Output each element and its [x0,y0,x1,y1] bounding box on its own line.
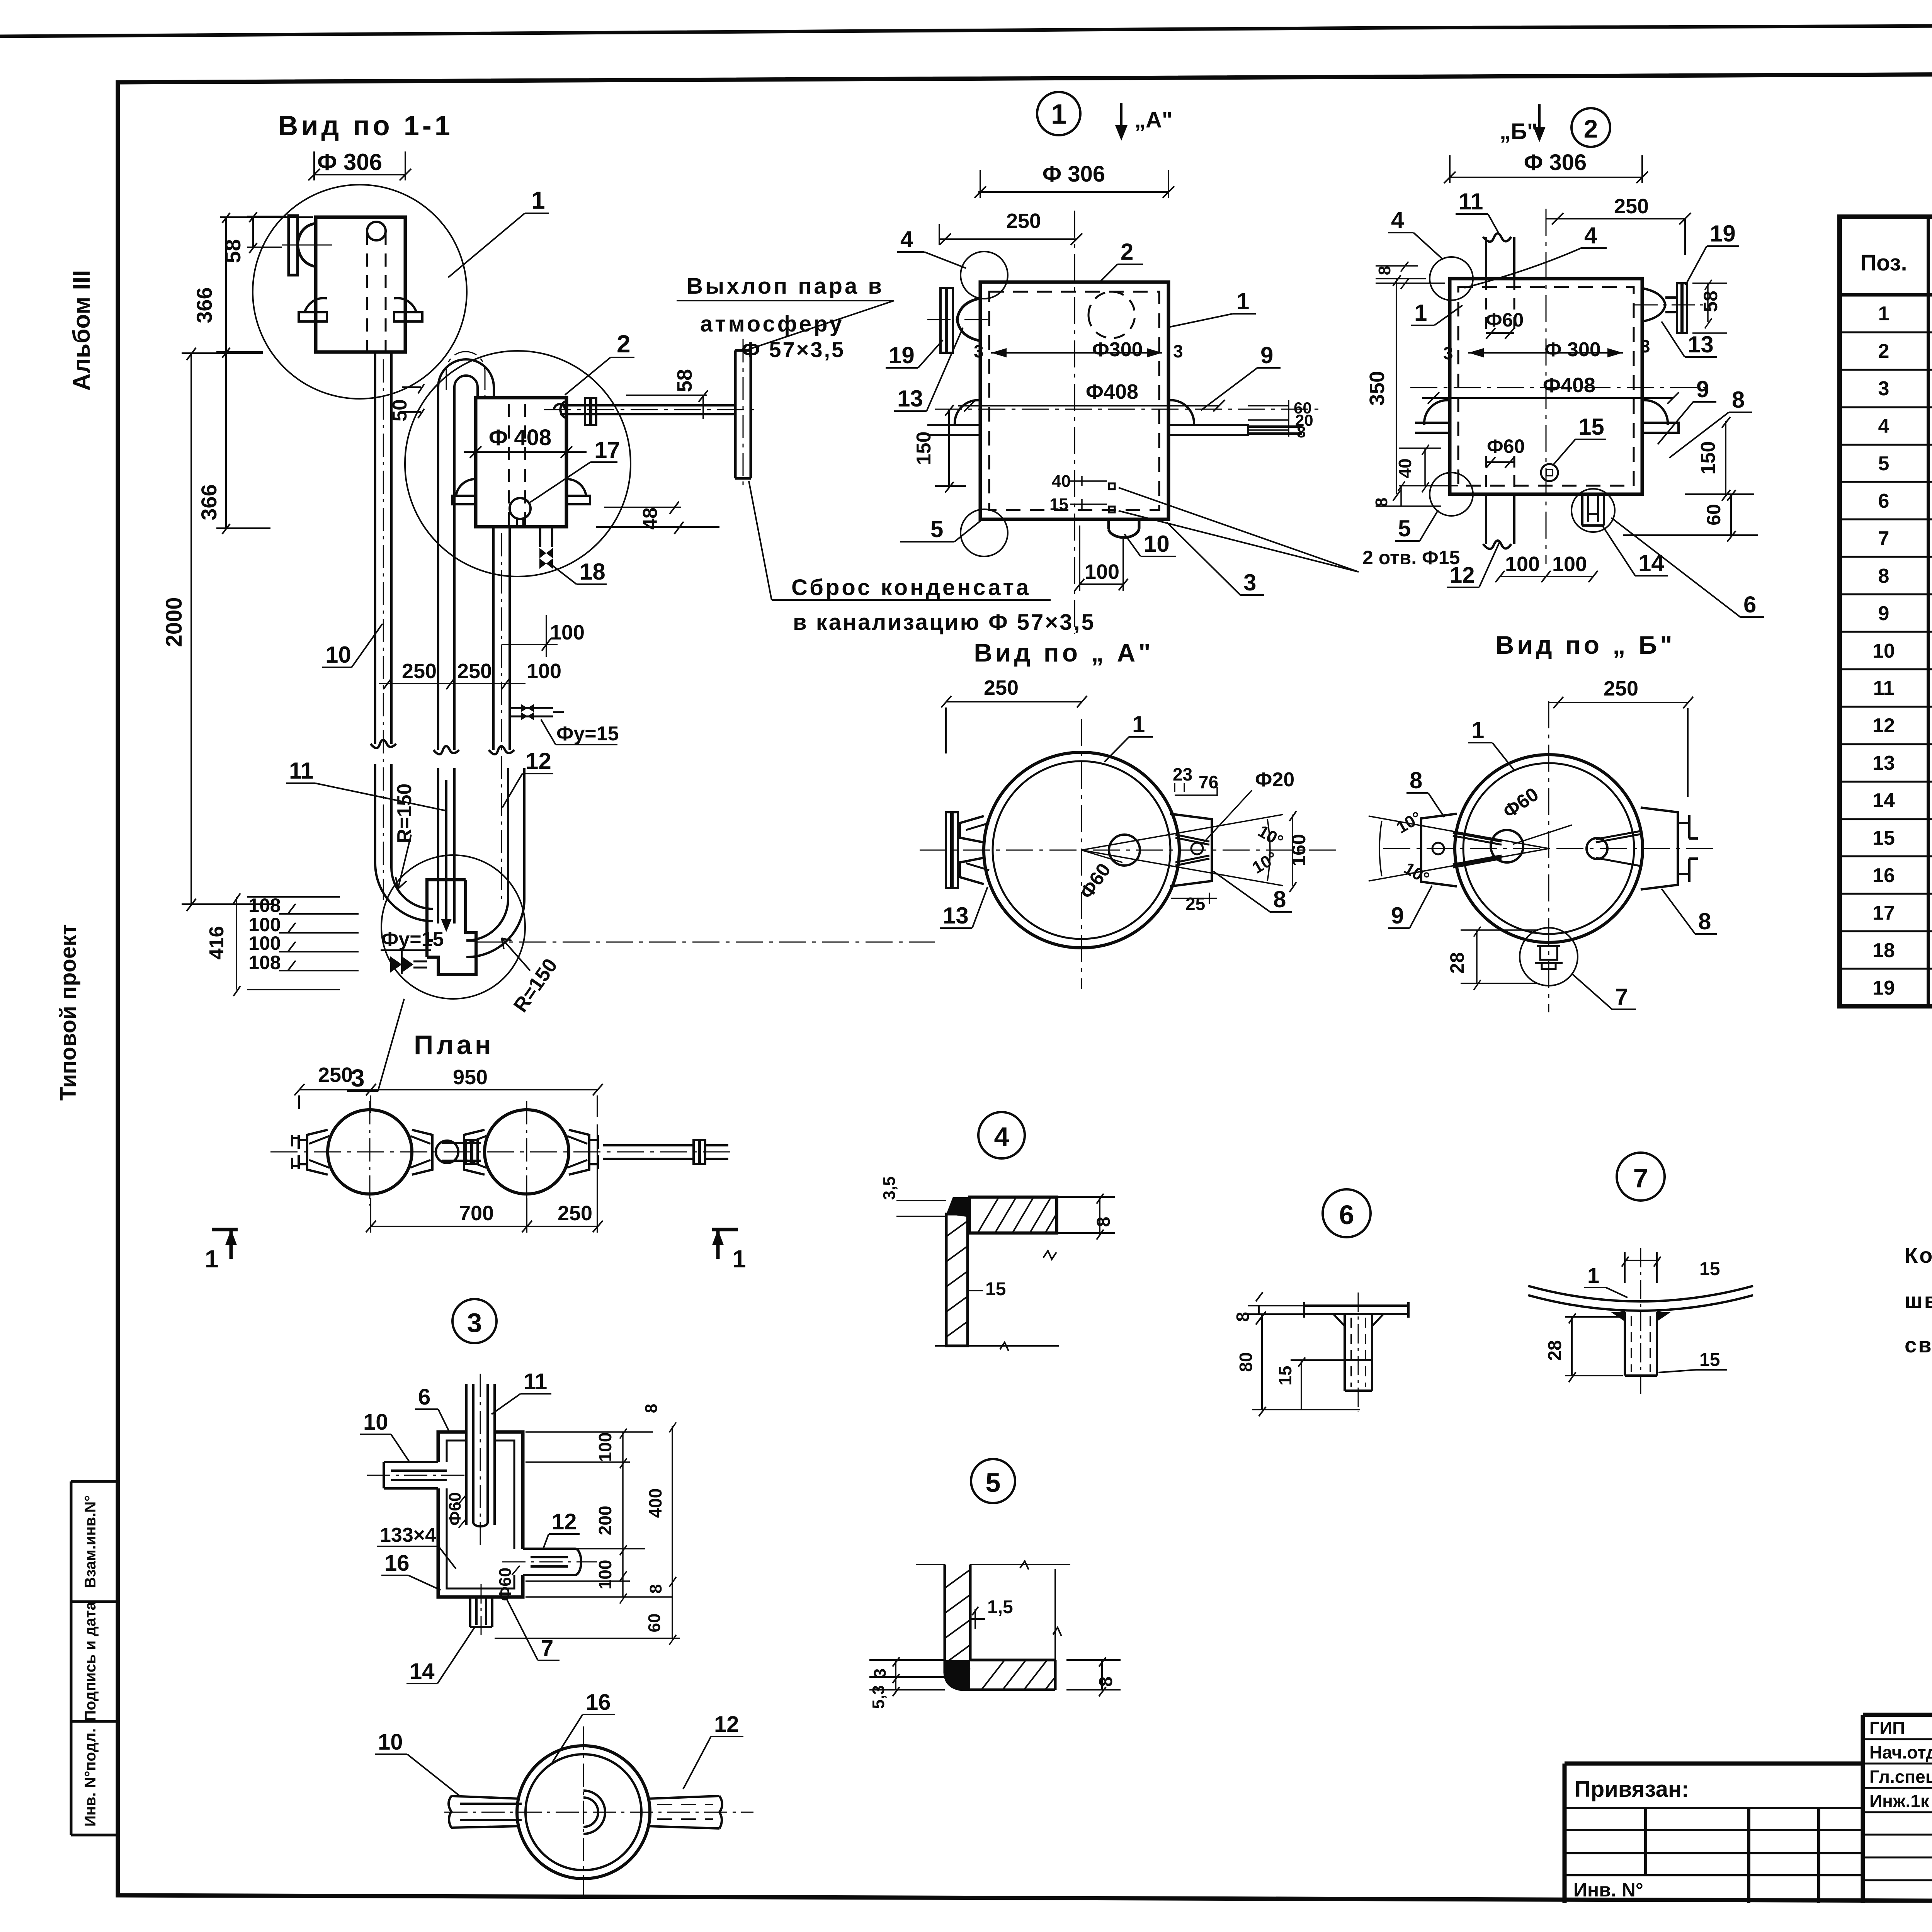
svg-text:60: 60 [1703,504,1725,526]
svg-text:5: 5 [1878,452,1889,475]
lower pipe 11 resumed [438,768,454,925]
round view left pipe [449,1796,522,1828]
svg-text:15: 15 [1699,1350,1720,1370]
svg-text:17: 17 [1872,902,1895,924]
drain valve right [510,708,564,716]
svg-text:18: 18 [580,559,605,585]
svg-text:1: 1 [1132,711,1145,737]
svg-text:Инж.1к: Инж.1к [1869,1791,1930,1811]
svg-text:10: 10 [363,1410,388,1435]
svg-text:12: 12 [552,1509,577,1534]
svg-text:100: 100 [1505,553,1540,576]
svg-text:4: 4 [1391,207,1404,233]
svg-text:План: План [414,1030,494,1060]
V2 centerlines [1410,209,1712,564]
svg-text:швом . Толщину шва принимат: швом . Толщину шва принимать равной мень… [1905,1288,1932,1313]
A main circle [984,752,1179,948]
svg-text:7: 7 [1615,984,1628,1010]
node3 bottom stub 14 [470,1597,492,1627]
node3 right pipe 12 [523,1549,581,1575]
node7 curved shell [1528,1286,1753,1311]
svg-text:80: 80 [1236,1352,1256,1372]
svg-text:3: 3 [1443,343,1453,363]
svg-text:28: 28 [1545,1340,1565,1361]
svg-text:366: 366 [192,287,216,323]
V2 tank body [1450,279,1642,494]
svg-text:5: 5 [930,516,943,542]
valve 18 symbol [539,548,553,569]
svg-text:3: 3 [1173,341,1183,361]
V2 inner dashed shell [1458,287,1634,486]
svg-text:Ф20: Ф20 [1255,769,1294,791]
view A arrow [1120,103,1122,136]
bottom-left sub table [1565,1808,1863,1875]
svg-text:8: 8 [1094,1217,1114,1227]
svg-text:150: 150 [1697,441,1719,475]
B small hole right [1587,838,1607,859]
V1 left nozzle [940,288,953,353]
svg-text:5: 5 [986,1468,1001,1498]
svg-text:1: 1 [1051,99,1066,130]
svg-text:12: 12 [1872,714,1895,737]
svg-text:11: 11 [524,1369,547,1394]
svg-text:250: 250 [558,1202,592,1225]
A 10 degree rays [1082,815,1283,886]
node3 tank body [438,1432,523,1597]
svg-text:950: 950 [453,1066,488,1089]
svg-text:Ф 306: Ф 306 [1524,150,1587,175]
svg-text:15: 15 [1699,1259,1720,1279]
svg-text:15: 15 [1049,495,1068,514]
plan section mark right [712,1230,738,1259]
svg-text:4: 4 [1878,415,1889,437]
plan right vessel right lug [569,1130,598,1175]
svg-text:76: 76 [1199,772,1218,792]
svg-text:11: 11 [1873,677,1895,699]
tank2 left support [452,479,476,504]
svg-text:250: 250 [1006,209,1041,233]
svg-text:19: 19 [889,342,915,368]
svg-text:5: 5 [1398,515,1411,541]
seal pot tank3 [427,880,476,975]
svg-text:14: 14 [1638,550,1664,576]
section marker circle 2 [1571,108,1610,147]
svg-text:58: 58 [1700,291,1721,312]
svg-text:23: 23 [1173,764,1192,784]
B right lug [1641,808,1698,889]
svg-text:Сброс конденсата: Сброс конденсата [791,575,1031,600]
page top scan line [0,23,1932,36]
V1 detail circle top left [961,252,1008,299]
svg-text:14: 14 [410,1659,435,1684]
svg-text:R=150: R=150 [393,784,416,844]
plan right vessel [485,1110,569,1194]
V2 right nozzle [1642,283,1687,333]
V2 bottom pipe 12 [1483,494,1514,549]
svg-text:Вид по „ А": Вид по „ А" [974,638,1153,667]
V2 left support [1415,400,1450,433]
node4 vertical plate hatched [946,1214,968,1346]
pipe 12 run [489,527,514,754]
svg-text:Фу=15: Фу=15 [381,928,444,951]
svg-text:6: 6 [1339,1200,1354,1230]
svg-text:3,5: 3,5 [880,1176,899,1200]
svg-text:6: 6 [418,1384,430,1410]
svg-text:7: 7 [1878,527,1889,550]
svg-text:7: 7 [541,1636,553,1661]
svg-text:700: 700 [459,1202,494,1225]
svg-text:6: 6 [1878,490,1889,512]
svg-text:Ф 306: Ф 306 [317,149,382,175]
svg-text:13: 13 [897,386,923,412]
plan left vessel [328,1110,412,1194]
svg-text:1: 1 [1587,1263,1599,1287]
svg-text:16: 16 [1872,864,1895,887]
V2 right support [1642,400,1679,433]
tank2 drain cock [510,498,531,519]
svg-text:250: 250 [1604,677,1638,700]
svg-text:9: 9 [1878,602,1889,625]
svg-text:16: 16 [384,1551,410,1576]
round view right pipe [648,1796,722,1828]
svg-text:40: 40 [1395,458,1415,478]
svg-text:8: 8 [1698,908,1711,934]
svg-text:6: 6 [1743,592,1756,617]
node4 horizontal plate hatched [969,1197,1057,1233]
left margin cells [71,1481,118,1835]
svg-text:108: 108 [248,895,281,916]
tank2 right nozzle and pipe [554,401,735,418]
svg-text:3: 3 [1243,570,1256,595]
svg-text:2: 2 [1584,114,1598,143]
node5 horizontal plate [962,1660,1055,1690]
svg-text:100: 100 [1552,553,1587,576]
B main circle [1455,755,1643,942]
parts table grid [1840,217,1932,1006]
svg-text:150: 150 [913,432,935,465]
svg-text:100: 100 [1085,560,1119,583]
B centerlines [1383,701,1716,1012]
svg-text:4: 4 [900,226,913,252]
svg-text:3: 3 [1878,378,1889,400]
V2 coupling 15 [1541,464,1558,481]
svg-text:11: 11 [1459,189,1483,214]
A left lug assembly [946,812,984,888]
svg-text:Поз.: Поз. [1860,250,1907,276]
plan left vessel right lug [412,1130,432,1175]
svg-text:8: 8 [646,1584,665,1594]
svg-text:19: 19 [1710,221,1736,247]
svg-text:1: 1 [1414,300,1427,326]
svg-text:8: 8 [1096,1677,1116,1687]
svg-text:в канализацию Ф 57×3,5: в канализацию Ф 57×3,5 [793,610,1095,635]
svg-text:9: 9 [1260,342,1273,368]
svg-text:250: 250 [984,676,1019,699]
tank1 left support [299,298,327,321]
plan centerline [270,1151,734,1153]
svg-text:8: 8 [642,1404,661,1413]
round view center boss [583,1791,605,1834]
svg-text:100: 100 [248,932,281,954]
V2 stub 14 [1582,494,1604,526]
node3 top pipe 11 [466,1384,495,1526]
A right lug assembly [1170,814,1212,886]
svg-text:108: 108 [248,952,281,973]
svg-text:Ф408: Ф408 [1543,374,1595,397]
svg-text:10: 10 [1872,640,1895,662]
svg-text:12: 12 [1450,563,1475,588]
svg-text:Нач.отд.: Нач.отд. [1869,1742,1932,1762]
V1 left support [927,400,980,435]
tank3 left drain stub and valve [413,961,427,968]
svg-text:Ф408: Ф408 [1086,380,1138,403]
svg-text:50: 50 [389,399,411,422]
svg-text:133×4: 133×4 [380,1524,436,1546]
node6 gussets [1333,1314,1383,1326]
svg-text:11: 11 [289,758,313,784]
svg-text:Типовой проект: Типовой проект [56,924,81,1100]
B hole Ф60 [1491,830,1523,862]
plan left vessel left lug [292,1130,328,1175]
svg-text:2: 2 [1878,340,1889,362]
A centerlines [920,719,1337,989]
svg-text:14: 14 [1872,789,1895,812]
svg-text:2 отв. Ф15: 2 отв. Ф15 [1362,547,1460,568]
svg-text:250: 250 [1614,195,1649,218]
svg-text:15: 15 [1578,414,1604,440]
tank1 inner pipe dashed [367,232,386,352]
svg-text:10: 10 [1144,531,1170,557]
plan outgoing pipe [603,1140,728,1164]
svg-text:5,3: 5,3 [869,1685,888,1709]
svg-text:15: 15 [1872,827,1895,849]
svg-text:58: 58 [221,239,245,263]
svg-text:366: 366 [197,484,221,520]
svg-text:Ф60: Ф60 [1487,435,1525,457]
plan section mark left [212,1230,238,1259]
svg-text:10: 10 [378,1730,403,1755]
svg-text:8: 8 [1732,387,1745,413]
svg-text:18: 18 [1872,939,1895,962]
svg-text:100: 100 [527,660,561,683]
svg-text:Ф 300: Ф 300 [1544,338,1601,361]
centerline from tank3 [476,942,935,943]
tank1 right support [394,298,422,321]
A center hole [1109,835,1140,866]
svg-text:12: 12 [714,1712,739,1737]
svg-text:28: 28 [1446,952,1468,974]
V1 hidden pipe circle [1088,292,1135,338]
svg-text:7: 7 [1633,1163,1648,1193]
svg-text:4: 4 [1584,223,1597,248]
svg-text:Ф 306: Ф 306 [1043,162,1105,187]
V1 right support [1168,400,1302,435]
svg-text:1: 1 [1878,303,1889,325]
svg-text:Ф300: Ф300 [1092,338,1143,361]
node5 weld bead corner [945,1660,970,1690]
svg-text:19: 19 [1872,977,1895,999]
tank1 nozzle horn [298,223,316,267]
node6 centerline [1358,1293,1359,1412]
svg-text:Ф60: Ф60 [496,1568,515,1601]
V1 centerlines [935,211,1321,634]
svg-text:8: 8 [1375,266,1394,275]
svg-text:2: 2 [1121,239,1133,265]
tank1 top hole [367,222,386,240]
svg-text:1: 1 [1236,288,1249,314]
tank1 left nozzle flange [289,216,298,275]
svg-text:12: 12 [526,748,551,774]
svg-text:15: 15 [1275,1366,1295,1385]
node7 centerline [1640,1248,1641,1395]
svg-text:250: 250 [457,660,492,683]
node5 vertical plate [945,1565,970,1690]
node4 break marks [935,1251,1059,1351]
svg-text:Вид по 1-1: Вид по 1-1 [278,111,453,141]
svg-text:25: 25 [1185,894,1205,914]
tank3 inner wall [465,887,466,888]
round view centerlines [444,1726,753,1899]
svg-text:100: 100 [595,1560,615,1590]
svg-text:1: 1 [1471,717,1484,743]
svg-text:свариваемых элементов .: свариваемых элементов . [1905,1333,1932,1357]
svg-text:9: 9 [1696,376,1709,402]
V2 top pipe 11 [1483,233,1514,279]
svg-text:13: 13 [1872,752,1895,774]
plan connector [436,1141,458,1163]
svg-text:1: 1 [732,1245,746,1273]
svg-text:Инв. N°: Инв. N° [1573,1879,1643,1901]
V1 drain holes [1109,483,1115,489]
B bottom detail circle [1520,928,1578,986]
svg-text:15: 15 [985,1279,1006,1299]
plan right vessel left lug [464,1130,485,1175]
vessel tank2 body [476,398,566,527]
svg-text:Подпись и дата: Подпись и дата [82,1601,99,1721]
staff table rows [1863,1739,1932,1880]
svg-text:60: 60 [645,1614,664,1633]
node6 stem [1345,1314,1372,1391]
valve 18 stub [540,527,552,547]
node7 weld beads [1611,1309,1671,1321]
svg-text:Привязан:: Привязан: [1575,1777,1689,1802]
node4 left extension lines [896,1201,946,1216]
centerline pipes vertical [383,359,502,900]
lower pipe 12 resumed with elbow [466,768,524,957]
svg-text:40: 40 [1052,472,1071,491]
title block outer [1565,1715,1932,1903]
pipe 10 upper run [371,352,396,748]
svg-text:8: 8 [1297,423,1306,441]
lower pipe A resumed with elbow [375,764,433,921]
svg-text:160: 160 [1288,834,1310,866]
svg-text:3: 3 [351,1064,365,1092]
svg-text:3: 3 [974,341,984,361]
detail circle 3 [381,855,525,999]
svg-text:Конструкция затвора сварная: Конструкция затвора сварная . Варить нор… [1905,1243,1932,1267]
svg-text:Альбом III: Альбом III [68,270,95,391]
V2 detail circle bottom left [1430,473,1473,516]
svg-text:250: 250 [318,1063,353,1087]
node4 weld bead [946,1197,969,1217]
svg-text:350: 350 [1366,371,1389,406]
svg-text:3: 3 [467,1308,482,1338]
bottom round view outer circle [517,1746,650,1879]
section marker circle 1 [1037,92,1080,135]
svg-text:250: 250 [402,660,437,683]
svg-text:„Б": „Б" [1500,119,1537,144]
svg-text:Гл.спец.: Гл.спец. [1869,1767,1932,1787]
svg-text:Ф60: Ф60 [1486,309,1524,331]
node7 stub pipe [1625,1312,1657,1376]
node5 top ext lines [916,1561,1070,1660]
V1 bottom stub pipe [1109,519,1139,537]
B left lug [1421,814,1457,886]
tank2 right support [566,479,590,504]
svg-text:9: 9 [1391,903,1404,929]
svg-text:Инв. N°подл.: Инв. N°подл. [82,1728,99,1827]
svg-text:13: 13 [943,903,969,929]
U-bend pipe [438,359,494,398]
V1 tank body [980,282,1168,519]
svg-text:Ф 57×3,5: Ф 57×3,5 [742,337,845,362]
svg-text:Фу=15: Фу=15 [556,723,619,745]
V2 detail circle top left [1430,257,1473,300]
svg-text:2: 2 [617,330,631,358]
node3 left pipe 10 [384,1462,447,1488]
detail circle around tank2 [405,351,631,577]
node6 plate [1304,1302,1408,1318]
pipe 11 upper run [434,386,459,754]
svg-text:1: 1 [205,1245,219,1273]
svg-text:416: 416 [206,926,228,960]
svg-text:58: 58 [673,369,696,392]
detail circle around tank1 [253,185,467,399]
detail marker circle 6 [1323,1189,1371,1237]
svg-text:200: 200 [595,1506,615,1536]
V1 inner dashed shell [989,292,1159,510]
B drain tee [1535,946,1563,969]
svg-text:1: 1 [531,186,545,214]
svg-text:Выхлоп пара в: Выхлоп пара в [687,274,884,299]
vessel tank1 body [316,217,405,352]
svg-text:400: 400 [645,1488,665,1518]
V2 detail circle stub [1571,489,1615,532]
detail marker circle 4 [978,1112,1025,1158]
svg-text:Вид по „ Б": Вид по „ Б" [1495,631,1675,659]
svg-text:8: 8 [1878,565,1889,587]
svg-text:13: 13 [1688,332,1714,357]
pipe flange pair [585,398,596,425]
svg-text:Ф 408: Ф 408 [489,425,551,450]
detail marker circle 5 [971,1459,1015,1503]
svg-text:2000: 2000 [162,597,187,647]
tank2 inner pipe dashed [509,404,525,527]
svg-text:1,5: 1,5 [987,1597,1013,1617]
svg-text:4: 4 [994,1122,1009,1152]
detail marker circle 7 [1617,1153,1665,1201]
detail marker circle 3 [452,1299,497,1343]
svg-text:17: 17 [594,437,620,463]
svg-text:Взам.инв.N°: Взам.инв.N° [82,1495,99,1588]
B 10 degree rays [1369,816,1549,881]
svg-text:Ф60: Ф60 [446,1492,464,1526]
svg-text:ГИП: ГИП [1869,1718,1905,1738]
svg-text:8: 8 [1410,767,1422,793]
V1 detail circle bottom left [961,509,1008,556]
svg-text:100: 100 [595,1432,615,1462]
svg-text:„А": „А" [1134,107,1172,133]
